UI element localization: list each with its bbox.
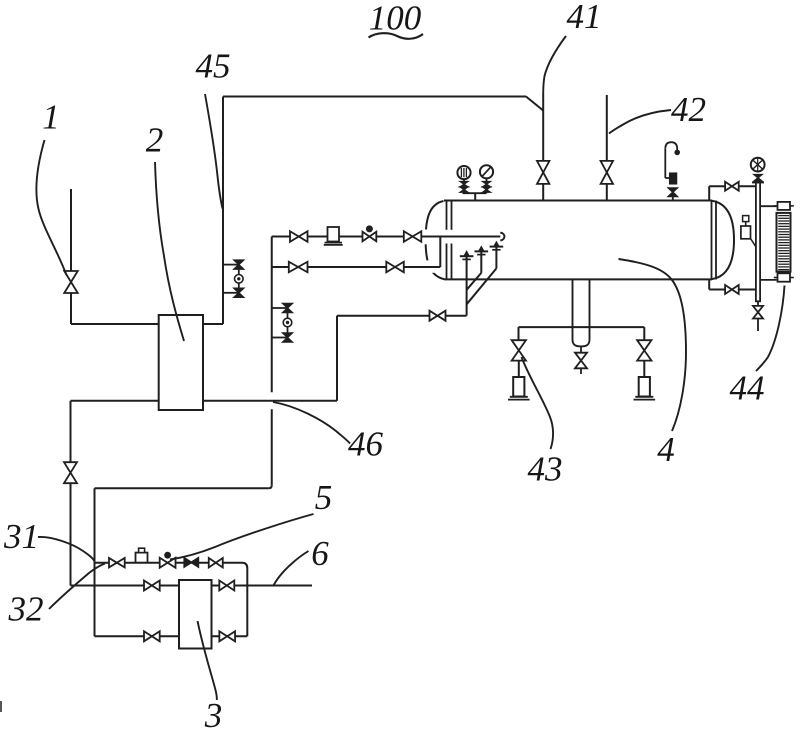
svg-text:1: 1 xyxy=(42,98,60,137)
svg-text:45: 45 xyxy=(196,47,231,86)
svg-text:32: 32 xyxy=(8,590,44,629)
svg-text:3: 3 xyxy=(204,696,223,732)
svg-text:42: 42 xyxy=(671,90,706,129)
svg-text:41: 41 xyxy=(567,0,602,36)
svg-text:31: 31 xyxy=(3,517,39,556)
svg-text:6: 6 xyxy=(311,534,329,573)
svg-text:4: 4 xyxy=(657,430,675,469)
svg-text:46: 46 xyxy=(348,425,384,464)
svg-text:2: 2 xyxy=(146,121,164,160)
svg-text:43: 43 xyxy=(528,450,563,489)
svg-text:44: 44 xyxy=(730,369,765,408)
svg-text:5: 5 xyxy=(315,478,333,517)
svg-text:100: 100 xyxy=(369,0,422,38)
